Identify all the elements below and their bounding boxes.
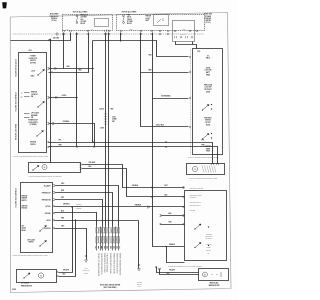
caption under RB2 xyxy=(168,265,203,268)
component box LB2 master switch xyxy=(21,183,53,253)
contact dot RB2 switch 2 xyxy=(208,245,209,246)
label HOT AT ALL TIMES (left fuse block) xyxy=(73,11,88,14)
wire bundle vertical 3 xyxy=(101,227,103,251)
bus A label right PPL xyxy=(202,139,205,141)
junction dot x77 y97.5 xyxy=(76,97,77,98)
pin RB2 y215.5 xyxy=(183,215,185,217)
wire bundle vertical 6 xyxy=(111,227,113,251)
page background xyxy=(0,0,237,300)
wire bundle vertical 8 xyxy=(117,227,119,251)
pin LM B xyxy=(80,168,82,170)
inline connector arrow on y97.5 wire xyxy=(56,96,58,98)
pin BLM B xyxy=(57,275,59,277)
wire label RED/BLK y246.5 xyxy=(169,244,175,246)
caption stub x86 xyxy=(83,268,90,274)
switch in BLM xyxy=(24,273,30,278)
pin on y224 stub xyxy=(160,223,162,225)
pin LB2 y220 xyxy=(53,219,55,221)
LB2 row label B (+) BATT xyxy=(44,185,51,188)
wire label RED/BLK y207 right xyxy=(135,205,142,207)
junction dot x50 on ORG wire xyxy=(49,39,50,40)
wire from B2 pin 175 to RB1 top xyxy=(176,42,197,49)
LB2 left column text 1 xyxy=(22,196,28,202)
wire bundle vertical 1 xyxy=(95,227,97,251)
page border xyxy=(10,13,231,293)
wire stub from B2 pin 190 xyxy=(191,42,194,45)
bundle label band 2 xyxy=(96,237,120,244)
junction dot x72 y207 xyxy=(71,206,72,207)
pin RM B xyxy=(217,163,219,165)
pin BLM A xyxy=(57,271,59,273)
wire label RED y72 xyxy=(148,69,151,71)
contact dot RB1 lower a xyxy=(211,133,212,134)
pin label C2 under y68.5 wire xyxy=(51,71,53,73)
wire label 340 ORG xyxy=(53,36,60,39)
wire label WHT y192 xyxy=(61,190,64,192)
RB1 text block 1 xyxy=(206,55,211,59)
LB2 row label GROUND xyxy=(45,213,51,215)
caption under BRM line2 xyxy=(209,285,220,287)
motor symbol BRM xyxy=(203,272,208,277)
pin C8 (fuse block B1) xyxy=(87,30,89,32)
wire label 24 BLK xyxy=(99,108,104,111)
inline arrow on y207 wire xyxy=(147,206,150,209)
pin 7 (fuse block B2) xyxy=(189,30,191,32)
wire center vertical 2 (x109) xyxy=(107,33,110,227)
pin LB2 y213 xyxy=(53,212,55,214)
wire stub x139 down xyxy=(137,221,140,269)
switch inside LM xyxy=(33,166,39,171)
dashed door boundary right xyxy=(190,49,192,155)
wire label PPL/WHT at LM xyxy=(89,162,96,164)
junction dot x93 y68.5 xyxy=(92,68,93,69)
wire stub into RB2 y224 xyxy=(161,223,185,226)
LB2 row label PWR WDO UP xyxy=(42,193,51,195)
RB2 text rows xyxy=(190,187,204,211)
wire label ORG y57 xyxy=(148,54,152,56)
wire label 2 ORG below connector xyxy=(100,128,104,130)
LB1 text block 4 xyxy=(31,112,39,120)
wire label RED/BLK y98 xyxy=(161,95,171,97)
component box RB1 power door lock switch RF xyxy=(193,49,223,155)
bundle band text marks xyxy=(96,228,119,242)
bus A y142 xyxy=(49,143,213,164)
wire vertical x93 to bus A xyxy=(91,41,94,143)
pin 1 (fuse block B2) xyxy=(120,30,122,32)
wire label ORG y224 xyxy=(168,222,172,224)
LB2 row label ALT SIG xyxy=(45,205,50,208)
wire label ORG y185 xyxy=(61,183,65,185)
component box BRM rear window motor xyxy=(199,269,229,281)
pin LB2 y206 xyxy=(53,205,55,207)
wire bundle vertical 2 xyxy=(99,227,101,251)
pin LM A xyxy=(80,164,82,166)
pin labels A B (fuse block B1) xyxy=(66,28,68,31)
wire branch x72 down to BLM xyxy=(59,207,73,273)
BRM contact dots xyxy=(212,272,221,277)
inline connector on bus B xyxy=(165,146,167,148)
wire label BLK y197 xyxy=(165,195,169,197)
pin labels TB2 sub-box xyxy=(181,34,186,36)
connector cross on boundary xyxy=(55,32,59,36)
wire label RED right of pair xyxy=(111,109,114,111)
junction dot x166 y246.5 xyxy=(165,246,166,247)
wire label ORG/BLK y206 xyxy=(63,204,71,206)
RB1 text block 3 xyxy=(204,84,213,93)
junction dot bus A x93 xyxy=(92,141,93,142)
wire LB2 y220 PNK to stub x139 xyxy=(55,219,139,222)
inline connector on y187.5 wire xyxy=(151,187,153,189)
pin RB2 bottom 2 xyxy=(159,268,161,270)
bridge wire y41 to RB1 pin 57 xyxy=(93,41,189,57)
RB1 text block 5 xyxy=(205,145,211,153)
wire label PPL/WHT at BRM xyxy=(169,270,175,272)
wire label LT BLU y127 xyxy=(156,123,164,126)
RB2 motor text block xyxy=(205,234,213,240)
wire branch x75.5 down to BLM xyxy=(59,221,76,277)
bundle label band 1 xyxy=(96,228,120,234)
arrow stub x139 xyxy=(138,269,141,271)
wire branch x141 y72 to RB1 xyxy=(141,71,189,74)
wire LB2 y199.5 GRY into bundle x103 xyxy=(55,200,103,227)
LB1 text block 5 xyxy=(30,142,36,146)
note left of fuse block B1 xyxy=(50,13,59,23)
switch S2 (LB1) xyxy=(38,102,45,108)
wire bundle vertical 5 xyxy=(107,227,109,251)
switch in RB2 upper xyxy=(195,224,201,229)
wire branch x152 y98 to RB1 xyxy=(153,97,189,100)
caption under bundle line2 xyxy=(103,286,117,289)
scan mark top-left corner xyxy=(2,2,7,8)
label PWR DR LK fuse xyxy=(127,14,133,25)
pin RB2 y207 xyxy=(183,206,185,208)
pin RB1 y57 xyxy=(189,56,191,58)
wire RED drop to LB1 pin y72 xyxy=(49,33,89,73)
switch in RB1 lower xyxy=(202,134,209,140)
wire ORG 340 to left border xyxy=(11,33,71,41)
switch S5 (LB2) xyxy=(40,241,47,247)
pin RB2 y224 xyxy=(183,223,185,225)
junction dot bus B x77 xyxy=(76,146,77,147)
wire label GRY/BLK y187.5 xyxy=(132,185,139,187)
switch S4 (LB2) xyxy=(40,226,47,232)
pin LB1 y122 xyxy=(47,123,49,125)
pin label ORG (fuse block B2) xyxy=(183,29,186,31)
wire LB1 y97.5 to junction x77 xyxy=(49,96,77,99)
pin RM A xyxy=(212,163,214,165)
label PWR ACCY CKT BKR 25A xyxy=(81,13,88,25)
page number 41308 xyxy=(12,288,16,291)
wire LM pin B to RB2 y197 xyxy=(82,169,185,197)
pin LB2 y199.5 xyxy=(53,199,55,201)
hatch pattern in RM xyxy=(202,166,216,173)
contact dot RB2 switch 1 xyxy=(208,226,209,227)
pin label C8 xyxy=(91,29,93,31)
dashed instrument panel boundary xyxy=(13,33,204,35)
LB2 row label LK SIG xyxy=(46,220,50,222)
sub-box inside fuse block B2 right xyxy=(173,21,195,42)
pin E8 (fuse block B1) xyxy=(108,30,110,32)
wire label BLK at LM xyxy=(89,166,93,168)
component box BLM lift glass motor xyxy=(17,270,57,283)
wire label BLK y213 xyxy=(61,211,65,213)
bus B label left PNK xyxy=(58,145,62,147)
motor symbol in LM xyxy=(42,165,47,170)
pin on stub x86 xyxy=(85,255,87,257)
inline connector arrow on ORG wire xyxy=(48,39,51,42)
inline connector on y197 wire xyxy=(151,196,153,198)
note right of fuse block B2 xyxy=(204,14,212,25)
wire label ORG/BLK at y122 xyxy=(63,121,71,123)
LB2 bottom text xyxy=(27,239,35,244)
pin B6 (fuse block B1) xyxy=(70,30,72,32)
label HOT AT ALL TIMES (right fuse block) xyxy=(122,11,137,14)
wire label PPL/WHT at BLM xyxy=(63,269,69,271)
wire bundle vertical 4 xyxy=(104,227,106,251)
LB1 text block 1 xyxy=(29,56,38,65)
caption under RB1 xyxy=(188,156,219,159)
pin LB1 y147 xyxy=(47,146,49,148)
RB2 switch labels xyxy=(206,244,212,255)
wire RB2 to BRM pin 2 xyxy=(160,269,199,275)
RB1 text block 4 xyxy=(204,117,212,126)
wire label A ORG at LB1 y97.5 xyxy=(62,94,68,97)
pin 3 (fuse block B2) xyxy=(151,30,153,32)
wire bundle vertical 7 xyxy=(114,227,116,251)
pin RB1 y72 xyxy=(189,71,191,73)
pin 2 (fuse block B2) xyxy=(140,30,142,32)
pin RB2 y197 xyxy=(183,196,185,198)
wire from B2 pin 121 down to bridge xyxy=(119,33,122,42)
caption under BLM line1 xyxy=(21,282,29,285)
pin LB2 y228 xyxy=(53,227,55,229)
LB1 text block 2 xyxy=(31,92,38,99)
pins inside TB2 sub-box xyxy=(175,36,193,38)
switch in RB2 lower xyxy=(195,243,201,248)
switch in RB1 upper xyxy=(202,105,209,111)
fuse PWR DR LK xyxy=(123,15,125,23)
inline connector arrow on y68.5 wire xyxy=(55,67,57,69)
indicator lamp pair 2 (LB1) xyxy=(24,114,30,118)
connector C2xx feed-through xyxy=(104,114,107,124)
pin on stub x139 xyxy=(138,264,140,266)
label LOCK (S1) xyxy=(31,70,35,72)
label C205 above LB1 xyxy=(28,50,31,52)
component box LB1 door lock switches xyxy=(19,53,47,153)
pin 8 (fuse block B2) xyxy=(196,30,198,32)
RB1 text block 2 xyxy=(205,67,212,76)
label C2xx 24 WAY GRY xyxy=(112,117,117,123)
pin LB1 y97.5 xyxy=(47,97,49,99)
caption under LM xyxy=(29,175,63,178)
RB1 label C305 xyxy=(197,51,200,53)
sub-box inside fuse block B1 xyxy=(95,19,109,27)
wire LB2 y213 BLK into bundle x97 xyxy=(55,213,97,227)
bus A label left PPL xyxy=(59,140,62,142)
switch S1 lock/unlock (LB1) xyxy=(38,70,45,76)
fuse block B2 (dashed, hot at all times) xyxy=(117,15,205,31)
wire feed x50 from ORG wire to LM xyxy=(49,40,52,163)
pin RB1 y127 xyxy=(189,126,191,128)
contact dot RB1 lower b xyxy=(211,137,212,138)
fuse block B1 (dashed, hot at all times) xyxy=(63,15,113,31)
pin RB2 bottom 1 xyxy=(155,266,157,268)
bus B y147 xyxy=(49,147,218,164)
LB2 left column text 2 xyxy=(22,206,28,210)
pin LB2 y185.5 xyxy=(53,185,55,187)
bus B label right PNK xyxy=(201,145,205,147)
arrow stub x86 xyxy=(85,260,88,262)
wire label BLK y215.5 stub xyxy=(169,213,173,215)
wire LM pin A to RB2 y187.5 xyxy=(82,165,185,188)
pin A6 (fuse block B1) xyxy=(63,30,65,32)
wire label BLK at BRM xyxy=(167,273,170,275)
component box LM window motor xyxy=(29,163,81,173)
pin RB2 y187.5 xyxy=(183,187,185,189)
pin labels G H xyxy=(106,29,108,31)
pin LB1 y68.5 xyxy=(47,68,49,70)
wire branch x166 to RB2 bottom pin xyxy=(167,247,185,263)
caption under BRM line1 xyxy=(210,281,219,284)
caption under bundle line1 xyxy=(100,283,120,286)
pin D8 (fuse block B1) xyxy=(105,30,107,32)
wire LB2 y228 ORG to stub x86 xyxy=(55,229,87,260)
inline connector on bus A xyxy=(165,141,167,143)
indicator lamp pair 1 (LB1) xyxy=(24,93,30,97)
wire ORG/BLK from LB1 y122 to bus B xyxy=(49,124,95,147)
component box RM door window motor xyxy=(187,164,225,175)
wire label ORG y228 xyxy=(61,226,65,228)
junction dot bus B x94 xyxy=(93,146,94,147)
inline connector on y122 wire xyxy=(52,123,54,125)
contact dot RB1 upper a xyxy=(211,104,212,105)
wire label ORG at y68.5 xyxy=(66,66,70,68)
LB2 row label PWR WDO DN xyxy=(42,200,51,202)
circuit breaker CB 25A xyxy=(76,15,78,23)
wire LB2 y185.5 ORG into bundle x118.5 xyxy=(55,186,119,227)
wire label WHT y187.5 xyxy=(164,185,167,187)
bundle connector ticks xyxy=(96,246,120,249)
label relay K1 xyxy=(146,16,151,22)
LB2 row label UNLK SIG xyxy=(44,228,50,230)
pin LB2 y192.5 xyxy=(53,192,55,194)
wire label RED at x88 drop xyxy=(78,70,81,72)
switch S3 (LB1) xyxy=(37,131,44,137)
caption under LB1 xyxy=(13,155,49,158)
component box RB2 liftgate module xyxy=(185,191,227,261)
wire LB2 y207 ORG/BLK to RB2 xyxy=(55,205,185,208)
pin RB1 y98 xyxy=(189,97,191,99)
junction dot x75.5 y220 xyxy=(75,219,76,220)
wire LB2 y192.5 WHT into bundle x112.5 xyxy=(55,193,113,227)
wire center vertical 1 (x105.5) xyxy=(104,33,107,227)
wire label PNK y220 xyxy=(61,218,65,220)
wire from pin A6 down to y68.5 wire xyxy=(62,33,65,69)
relay K1 power door lock xyxy=(154,15,169,26)
caption stub x139 xyxy=(137,282,142,288)
contact dot RB1 upper b xyxy=(211,108,212,109)
wire label BLK at BLM xyxy=(63,274,66,276)
label UNLK (S1) xyxy=(31,75,35,77)
wire from B2 pin 141 down to RB1 pin 127 xyxy=(141,33,189,127)
note right of junction xyxy=(76,203,82,210)
motor symbol BLM xyxy=(38,273,43,278)
LB1 text block 3 xyxy=(28,120,38,127)
relay contact symbol xyxy=(157,18,163,23)
LB2 left column text 3 xyxy=(22,226,27,232)
pin 5 (fuse block B2) xyxy=(167,30,169,32)
caption under LB2 xyxy=(13,254,49,257)
pin LB1 y142 xyxy=(47,141,49,143)
caption under BLM line2 xyxy=(21,285,32,287)
wire RB2 to BRM pin 1 xyxy=(157,267,199,273)
pin label RED (fuse block B2) xyxy=(130,29,133,31)
boundary crossing ticks xyxy=(63,33,169,35)
wire vertical x77 to bus B xyxy=(75,33,78,147)
pin 4 (fuse block B2) xyxy=(159,30,161,32)
wire label GRY y199 xyxy=(61,197,64,199)
wire stub into RB2 y215.5 xyxy=(161,214,185,217)
wire LB1 y68.5 to junction x93 xyxy=(49,67,93,70)
caption under RM xyxy=(189,176,218,179)
pin 6 (fuse block B2) xyxy=(174,30,176,32)
motor symbol RM xyxy=(192,166,197,171)
pin on y215.5 stub xyxy=(160,215,162,217)
wire from B2 pin 152 down to RB2 y246.5 xyxy=(153,33,185,247)
